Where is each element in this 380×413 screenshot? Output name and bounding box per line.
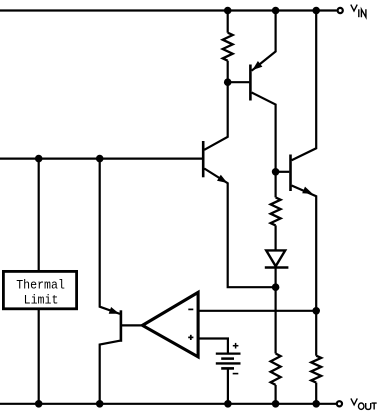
transistor Q3 (NPN) base bar [202,141,205,177]
node C (diode cathode / Q3 emitter / R3) [272,283,280,291]
op-amp U1 [142,292,198,356]
battery B1 [216,354,241,369]
resistor R2 [271,197,281,225]
transistor Q4 collector [100,341,120,404]
wire D1 to node C [275,268,277,288]
transistor Q3 emitter [204,169,275,288]
wire op-amp plus input to battery [198,339,228,354]
transistor Q2 emitter arrow [302,187,313,194]
svg-text:Thermal: Thermal [16,278,65,293]
transistor Q2 collector [292,11,317,161]
transistor Q1 (PNP) base bar [249,65,252,101]
wire R2 to D1 [275,225,277,250]
node bottom rail / R4 [312,400,320,408]
transistor Q4 (PNP) base bar [120,310,123,342]
transistor Q4 emitter arrow [109,307,120,314]
node top rail / Q1 emitter junction [272,7,280,15]
wire battery to bottom rail [227,368,229,403]
thermal limit block [3,271,76,308]
node top rail / Q2 collector junction [312,7,320,15]
resistor R1 [223,33,233,61]
node bottom rail / Q4 collector [96,400,104,408]
wire R4 bottom lead [315,383,317,404]
transistor Q4 emitter [100,159,120,314]
transistor Q1 collector [252,93,276,172]
label VOUT [351,398,377,409]
svg-text:Limit: Limit [24,293,59,308]
node A (R1 / Q1 base / Q3 collector) [224,78,232,86]
node top rail / R1 junction [224,7,232,15]
transistor Q2 emitter [292,186,317,311]
transistor Q3 collector [204,82,227,150]
node B (Q1 collector / Q2 base / R2) [272,168,280,176]
transistor Q1 emitter arrow [252,61,262,70]
thermal limit text [16,278,65,308]
node rail / thermal wire junction [35,155,43,163]
node rail / Q4 emitter junction [96,155,104,163]
wire top VIN rail [0,9,337,11]
node bottom rail / R3 [272,400,280,408]
battery B1 minus label [233,373,239,375]
wire D to R4 [315,311,317,356]
op-amp U1 minus sign [188,308,193,310]
transistor Q3 emitter arrow [217,175,227,183]
transistor Q1 emitter [252,11,276,71]
terminal VOUT [337,401,342,406]
resistor R3 [271,354,281,385]
node bottom rail / battery [224,400,232,408]
wire C to R3 [275,287,277,353]
wire Q2 base [276,171,290,173]
resistor R4 [311,356,321,383]
wire bottom VOUT rail [0,403,336,405]
battery B1 plus label [233,343,239,349]
wire R1 bottom lead [227,61,229,82]
diode D1 [265,250,289,267]
wire B to R2 [275,172,277,198]
wire Q1 base [228,81,250,83]
wire R3 bottom lead [275,385,277,404]
node D (Q2 emitter / R4 / op-amp minus) [312,307,320,315]
transistor Q2 (NPN) base bar [289,155,292,192]
op-amp U1 plus sign [188,335,193,340]
wire R1 top lead [227,11,229,33]
node bottom rail / thermal wire [35,400,43,408]
wire rail base Q3 [0,158,202,160]
wire thermal-limit branch [38,159,40,404]
wire op-amp inverting input to node D [198,310,316,312]
terminal VIN [338,8,343,13]
wire op-amp output to Q4 base [121,324,143,326]
label VIN [351,5,366,18]
